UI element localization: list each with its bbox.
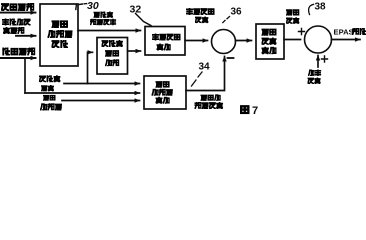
- plus sign at junction 38 bottom input: [322, 56, 328, 62]
- wire: longitudinal speed arrow into box 30: [0, 57, 36, 59]
- svg-text:30: 30: [87, 0, 99, 12]
- wire: steering angle input arrow into box 30: [0, 12, 36, 14]
- wire: torque control box to summing junction 38: [284, 39, 301, 41]
- wire: branch from longitudinal speed down to line B: [24, 59, 26, 93]
- node: label "roll angle" above wire: [94, 12, 112, 18]
- box 32 understeer control: [145, 27, 185, 56]
- wire: driver steering detect to box 32: [128, 50, 141, 52]
- svg-text:34: 34: [199, 62, 211, 73]
- minus sign below junction 36: [228, 57, 234, 59]
- label 34 with dashed leader: [192, 62, 211, 87]
- label 36 with dashed leader: [223, 7, 242, 23]
- label 32 with leader: [130, 4, 152, 26]
- wire: box 30 to box 32 (yaw rate feedback): [78, 30, 141, 32]
- node: label EPAS motor: [334, 28, 366, 37]
- node: input label "longitudinal speed": [3, 48, 34, 55]
- node: label "driver" bottom left: [40, 76, 60, 82]
- node: label "acceleration": [41, 104, 62, 111]
- wire: feedback from box 34 up into junction 36 (minus): [186, 57, 225, 91]
- box driver steering detection: [97, 38, 128, 75]
- wire: line A driver torque into box 34: [64, 83, 140, 85]
- label 30 with dashed leader: [76, 0, 99, 12]
- node: input label "rate" second line: [4, 27, 24, 33]
- plus sign at junction 38 left input: [299, 29, 305, 35]
- node: label "assist torque": [308, 70, 321, 84]
- box 34 lateral acceleration control: [144, 76, 186, 109]
- wire: line C lateral accel into box 34: [62, 100, 140, 102]
- node: input label "steering angle" top-left: [2, 3, 34, 10]
- node: label "lateral accel torque" line2: [195, 102, 222, 108]
- wire: yaw rate input arrow into box 30: [16, 35, 36, 37]
- node: label "speed feedback": [91, 19, 116, 25]
- node: input label "vehicle yaw": [3, 19, 30, 25]
- svg-text:36: 36: [231, 7, 243, 18]
- summing junction 38: [305, 26, 332, 53]
- wire: box 32 to summing junction 36: [185, 40, 208, 42]
- node: figure caption "Fig 7": [241, 105, 258, 117]
- wire: junction 36 to torque control box: [236, 40, 252, 42]
- node: label "understeer torque": [187, 8, 214, 22]
- wire: branch down from line A into box 5 driver steering detect: [88, 52, 93, 83]
- label 38 with curved leader: [309, 2, 326, 15]
- wire: line B into box 34: [25, 92, 140, 94]
- node: label "lateral": [43, 96, 54, 101]
- node: label "torque": [42, 85, 54, 91]
- svg-text:38: 38: [315, 2, 327, 13]
- node: label "steering torque": [287, 10, 299, 24]
- svg-text:7: 7: [252, 105, 258, 117]
- wire: junction 38 output to EPAS motor: [332, 39, 361, 41]
- box steering torque control: [256, 24, 284, 59]
- box 30 lateral acceleration conversion: [40, 4, 78, 66]
- node: label "lateral accel torque" line1: [201, 95, 220, 101]
- svg-text:EPAS: EPAS: [334, 28, 354, 37]
- wire: assist torque input up into junction 38: [317, 56, 319, 68]
- summing junction 36: [212, 30, 236, 54]
